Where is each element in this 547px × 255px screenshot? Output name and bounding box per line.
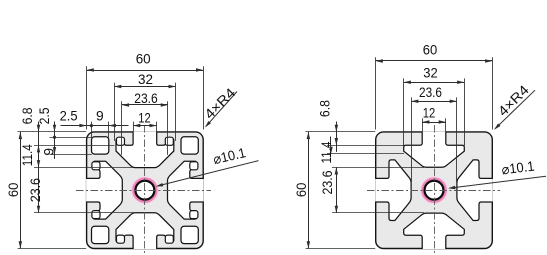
svg-text:11.4: 11.4 bbox=[20, 144, 35, 166]
svg-text:60: 60 bbox=[136, 52, 151, 67]
svg-text:60: 60 bbox=[423, 43, 438, 58]
svg-text:⌀10.1: ⌀10.1 bbox=[501, 159, 536, 178]
svg-text:⌀10.1: ⌀10.1 bbox=[212, 145, 248, 167]
svg-text:9: 9 bbox=[41, 148, 56, 156]
svg-text:23.6: 23.6 bbox=[320, 170, 335, 194]
svg-text:32: 32 bbox=[423, 66, 438, 81]
svg-text:2.5: 2.5 bbox=[60, 109, 78, 124]
svg-text:12: 12 bbox=[138, 110, 151, 125]
svg-text:23.6: 23.6 bbox=[28, 178, 43, 202]
svg-text:23.6: 23.6 bbox=[419, 85, 442, 100]
svg-text:60: 60 bbox=[6, 182, 21, 197]
svg-text:4×R4: 4×R4 bbox=[495, 82, 532, 119]
svg-text:2.5: 2.5 bbox=[37, 107, 52, 124]
svg-text:12: 12 bbox=[423, 106, 436, 121]
svg-text:4×R4: 4×R4 bbox=[202, 85, 239, 122]
svg-text:60: 60 bbox=[294, 182, 309, 197]
svg-text:23.6: 23.6 bbox=[134, 91, 158, 106]
svg-text:11.4: 11.4 bbox=[319, 141, 334, 163]
svg-text:9: 9 bbox=[96, 109, 104, 124]
svg-text:32: 32 bbox=[138, 72, 153, 87]
svg-text:6.8: 6.8 bbox=[318, 100, 333, 117]
svg-text:6.8: 6.8 bbox=[20, 107, 35, 124]
